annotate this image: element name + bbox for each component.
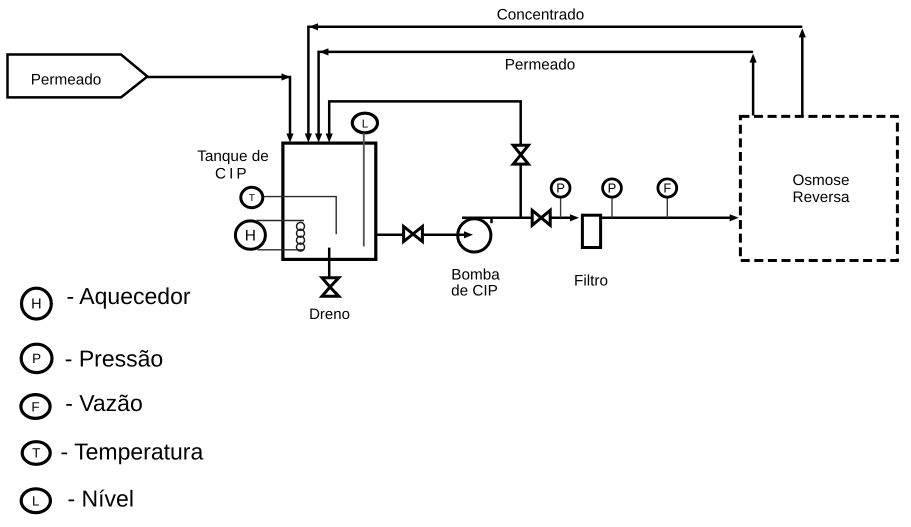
arrowhead down into tank (Permeado return) [315,134,322,143]
arrowhead left (Concentrado) [309,23,318,30]
svg-text:Reversa: Reversa [793,189,850,206]
wire tank outlet to valve [377,234,404,237]
svg-text:T: T [249,193,255,204]
svg-text:H: H [31,297,41,313]
arrowhead right at feed bend [282,73,291,80]
svg-text:P: P [32,351,41,366]
wire recirculation elbow (valve up, across, and down into tank) [329,101,521,144]
drain dip tube inside tank [328,248,331,260]
wire drain vertical below tank [328,260,331,277]
svg-text:Permeado: Permeado [505,56,576,73]
svg-text:de CIP: de CIP [451,283,498,300]
svg-text:- Nível: - Nível [68,486,134,512]
legend item F Vazao [21,390,143,418]
instrument H (heater) on tank [235,221,265,249]
wire filter to Osmose Reversa [602,217,731,220]
wire Permeado return elbow (horizontal and drop into tank) [319,52,753,136]
svg-text:Bomba: Bomba [451,266,500,283]
arrowhead down into tank (Concentrado) [305,134,312,143]
feed tag Permeado (pentagon flag) [8,55,148,98]
instrument P1 (pressure before filter) [551,179,570,218]
arrowhead into filter [570,214,579,221]
svg-text:Dreno: Dreno [309,306,350,323]
arrowhead down into tank (recirculation) [326,134,333,143]
svg-text:F: F [31,399,39,414]
arrowhead down into tank (feed) [286,134,293,143]
instrument L (level) on tank [352,113,377,133]
arrowhead up (Concentrado riser) [799,28,806,37]
wire pump outlet to valve V2 [489,217,532,220]
svg-text:P: P [608,180,617,195]
svg-text:L: L [32,494,40,509]
wire Permeado return vertical up from Osmose Reversa [752,62,755,116]
unit Osmose Reversa (dashed box) [740,116,897,260]
wire Concentrado elbow (horizontal and drop into tank) [308,27,802,136]
svg-text:Tanque de: Tanque de [197,148,268,165]
svg-text:Osmose: Osmose [793,172,850,189]
arrowhead left (Permeado return) [319,48,328,55]
tank Tanque de CIP (vessel) [283,143,376,259]
level probe line into tank [363,133,365,247]
svg-text:Permeado: Permeado [31,71,102,88]
svg-text:Filtro: Filtro [574,272,608,289]
arrowhead into Osmose Reversa [730,214,739,221]
svg-text:- Temperatura: - Temperatura [61,439,204,465]
svg-text:T: T [32,446,40,461]
svg-text:L: L [362,118,369,130]
svg-text:H: H [245,228,256,245]
svg-text:- Pressão: - Pressão [65,346,163,372]
filter Filtro (cartridge) [582,215,600,247]
temperature probe line into tank [264,197,337,235]
valve V1 (tank outlet bowtie) [404,227,423,242]
arrowhead up (Permeado riser) [750,54,757,63]
instrument T (temperature) on tank [241,187,263,207]
pump Bomba de CIP (centrifugal) [458,217,492,252]
svg-text:Concentrado: Concentrado [497,6,585,23]
legend item P Pressao [21,344,163,372]
wire Concentrado vertical up from Osmose Reversa [801,37,804,116]
wire feed elbow (pentagon tip to tank top) [147,77,290,136]
svg-text:CIP: CIP [215,166,250,183]
svg-text:F: F [663,180,671,195]
legend item H Aquecedor [22,283,191,319]
valve V-recirc (vertical bowtie) [513,145,528,164]
heater connection lines [256,220,304,222]
valve V2 (bowtie before filter) [532,210,550,225]
svg-text:- Vazão: - Vazão [65,390,143,416]
wire valve to pump inlet [423,234,465,237]
wire valve V2 to filter [551,217,571,220]
arrowhead into pump [464,231,473,238]
instrument F (flow) [658,179,677,218]
heater coil inside tank [297,222,305,251]
valve Dreno (vertical bowtie) [322,278,339,297]
legend item T Temperatura [22,439,203,465]
wire recirculation vertical (junction to valve) [519,165,522,218]
svg-text:- Aquecedor: - Aquecedor [67,283,191,309]
legend item L Nivel [21,486,134,513]
svg-text:P: P [556,180,565,195]
instrument P2 (pressure after filter) [603,179,622,218]
